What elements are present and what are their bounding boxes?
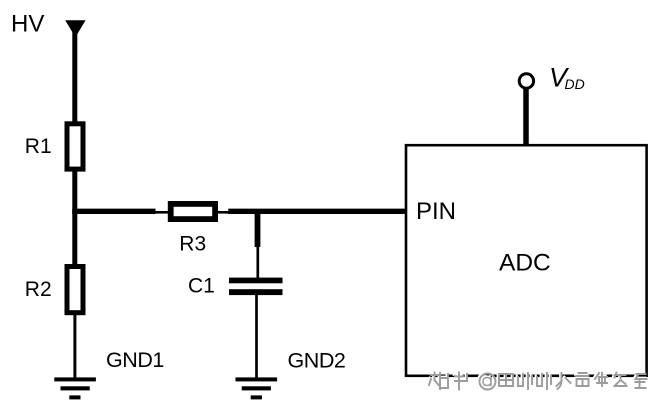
label GND2 xyxy=(288,348,346,372)
svg-text:R2: R2 xyxy=(25,278,52,301)
wire C1 to GND2 xyxy=(255,295,258,378)
label VDD xyxy=(549,62,585,92)
wire R2 to GND1 xyxy=(73,314,76,378)
wire R3 right lead xyxy=(217,211,230,214)
wire C1 top lead xyxy=(256,246,259,279)
label R1 xyxy=(25,135,52,158)
svg-text:R3: R3 xyxy=(179,232,206,255)
label R3 xyxy=(179,232,206,255)
wire VDD terminal to ADC xyxy=(523,88,529,146)
svg-text:GND2: GND2 xyxy=(288,348,346,372)
pin PIN label xyxy=(416,198,456,225)
watermark xyxy=(428,371,647,389)
svg-text:PIN: PIN xyxy=(416,198,456,225)
resistor R3 xyxy=(171,204,215,219)
wire R3 to ADC PIN (horizontal bus right) xyxy=(228,209,406,214)
wire junction stub to C1 xyxy=(255,209,261,247)
svg-text:C1: C1 xyxy=(188,274,215,297)
wire HV to R1 xyxy=(72,29,77,123)
label ADC xyxy=(499,249,551,276)
label C1 xyxy=(188,274,215,297)
power symbol HV (arrow) xyxy=(65,20,85,37)
op IC U1 ADC box xyxy=(406,145,647,376)
svg-text:R1: R1 xyxy=(25,135,52,158)
label GND1 xyxy=(106,348,164,372)
ground GND2 xyxy=(236,377,278,399)
wire node to R3 (horizontal bus left) xyxy=(72,209,155,214)
capacitor C1 xyxy=(229,278,283,296)
svg-text:DD: DD xyxy=(565,76,585,92)
terminal VDD circle xyxy=(519,74,533,88)
label R2 xyxy=(25,278,52,301)
wire R3 left lead xyxy=(155,211,170,214)
resistor R1 xyxy=(67,124,83,169)
node HV label xyxy=(11,11,44,38)
svg-text:HV: HV xyxy=(11,11,44,38)
svg-text:ADC: ADC xyxy=(499,249,551,276)
svg-text:GND1: GND1 xyxy=(106,348,164,372)
wire R1 to R2 through node xyxy=(72,170,77,266)
ground GND1 xyxy=(54,377,96,399)
resistor R2 xyxy=(67,267,83,313)
